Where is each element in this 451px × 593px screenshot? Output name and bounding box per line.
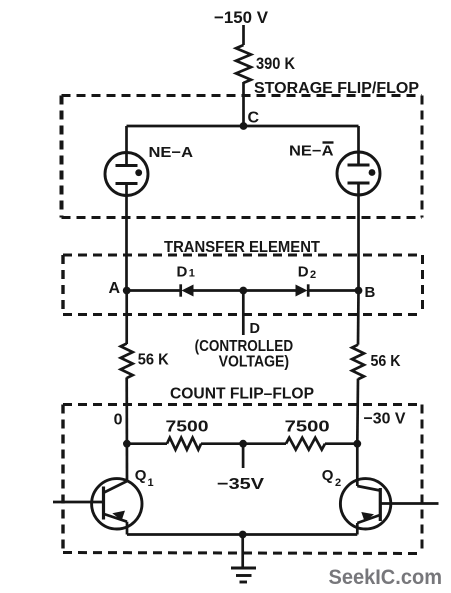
neon lamp NE-Abar: [289, 143, 380, 196]
ground: [231, 568, 256, 582]
svg-text:D: D: [250, 321, 260, 337]
node D junction: [239, 287, 247, 295]
svg-text:2: 2: [310, 269, 316, 281]
wire B to 56K right: [357, 291, 360, 345]
svg-text:1: 1: [189, 268, 195, 280]
svg-text:D: D: [177, 263, 188, 280]
svg-text:NE−A: NE−A: [289, 144, 334, 160]
svg-text:VOLTAGE): VOLTAGE): [219, 353, 290, 370]
svg-text:1: 1: [148, 477, 154, 489]
wire right lamp to node B: [357, 195, 360, 291]
svg-text:Q: Q: [135, 467, 147, 484]
svg-text:7500: 7500: [166, 419, 209, 436]
transfer element dashed box: [63, 239, 423, 315]
wire 56K right to -30V node: [356, 379, 359, 444]
wire A to D1: [127, 289, 180, 292]
wire D2 to node B: [308, 289, 359, 292]
wire 56K left to node 0: [125, 378, 128, 444]
wire supply feed: [242, 25, 245, 45]
svg-text:390 K: 390 K: [256, 54, 296, 73]
wire right junction to Q2 collector: [356, 444, 359, 486]
wire A to 56K left: [125, 291, 128, 345]
svg-text:A: A: [109, 280, 121, 297]
neon lamp NE-A: [105, 145, 194, 196]
svg-text:SeekIC.com: SeekIC.com: [329, 565, 443, 589]
diode D1: [177, 263, 195, 296]
storage flip/flop dashed box: [62, 80, 423, 218]
wire D1 to node D: [193, 289, 243, 292]
wire C rail: [127, 125, 359, 128]
resistor 7500 left: [166, 419, 209, 450]
svg-text:−150 V: −150 V: [214, 8, 269, 27]
node -35V junction: [239, 440, 247, 448]
svg-text:TRANSFER ELEMENT: TRANSFER ELEMENT: [164, 239, 320, 256]
wire node D to D2: [243, 289, 295, 292]
diode D2: [296, 264, 317, 297]
svg-text:0: 0: [114, 411, 123, 428]
svg-text:NE−A: NE−A: [149, 145, 194, 161]
wire controlled voltage stub D: [243, 291, 260, 338]
wire resistor to node C: [242, 82, 245, 126]
svg-text:−30 V: −30 V: [364, 411, 406, 428]
wire 7500 left to center node: [201, 442, 286, 445]
resistor 7500 right: [285, 419, 330, 450]
transistor Q1: [53, 467, 154, 535]
svg-text:7500: 7500: [285, 419, 330, 436]
wire junction to 7500 left: [127, 442, 167, 445]
wire left junction to Q1 collector: [126, 444, 129, 482]
node right collector junction: [353, 440, 361, 448]
wire left drop to lamp: [125, 126, 128, 154]
svg-text:C: C: [248, 110, 260, 127]
svg-text:STORAGE FLIP/FLOP: STORAGE FLIP/FLOP: [254, 80, 419, 97]
count flip-flop dashed box: [63, 386, 422, 554]
resistor 56K left: [121, 344, 169, 379]
svg-text:D: D: [298, 264, 309, 281]
wire emitter bottom rail: [127, 533, 357, 536]
node B: [355, 284, 376, 301]
svg-text:COUNT FLIP–FLOP: COUNT FLIP–FLOP: [170, 386, 314, 403]
wire left lamp to node A: [125, 196, 128, 291]
svg-text:2: 2: [335, 477, 341, 489]
label controlled voltage: [195, 338, 294, 370]
wire ground stub: [241, 535, 244, 569]
svg-text:56 K: 56 K: [371, 353, 401, 370]
wire right drop to lamp: [357, 126, 360, 153]
svg-text:B: B: [365, 284, 376, 301]
resistor 56K right: [352, 345, 401, 380]
wire -35V stub: [217, 444, 264, 493]
svg-text:−35V: −35V: [217, 476, 264, 493]
wire 7500 right to right junction: [325, 442, 357, 445]
node A: [109, 280, 131, 297]
transistor Q2: [322, 467, 439, 535]
svg-text:56 K: 56 K: [138, 352, 169, 369]
node left collector junction: [123, 440, 131, 448]
resistor R1 390K: [236, 45, 296, 83]
svg-text:Q: Q: [322, 467, 334, 484]
node C: [240, 110, 260, 130]
node ground junction: [239, 531, 247, 539]
